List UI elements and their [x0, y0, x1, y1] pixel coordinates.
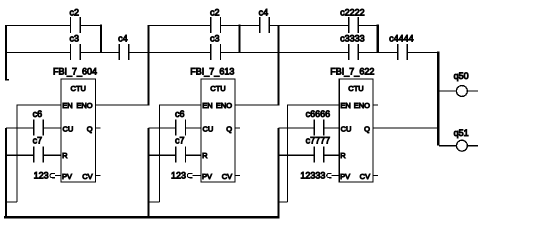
function block U1 FBI_7_604 (CTU counter) [53, 66, 97, 182]
svg-text:c6: c6 [33, 109, 43, 119]
wire: net1 rung, c3 to c4 [81, 52, 119, 54]
svg-text:Q: Q [226, 124, 232, 133]
wire: R input net3, junction to c7777 [279, 154, 314, 156]
svg-text:c3: c3 [70, 33, 80, 43]
contact c6 [33, 109, 44, 135]
svg-text:CU: CU [203, 124, 214, 133]
wire: net1 branch joiner vertical [100, 25, 102, 53]
wire: EN-branch bottom horizontal net1 [6, 201, 17, 203]
wire: CV output stub block3 [373, 175, 378, 177]
svg-text:CV: CV [82, 172, 92, 181]
wire: net3 rung, c3333 to c4444 [359, 52, 397, 54]
wire: EN-branch vertical net3 [287, 104, 289, 202]
wire: c7777 to R pin block3 [324, 154, 339, 156]
svg-text:123: 123 [34, 170, 49, 180]
wire: net2 rung, rail to c3 [149, 52, 211, 54]
wire: CV output stub block1 [95, 175, 100, 177]
contact c3333 [340, 33, 365, 60]
wire: net2 branch top, rail to c2 [149, 25, 211, 27]
wire: Q output stub block1 [95, 127, 100, 129]
svg-text:Q: Q [364, 124, 370, 133]
svg-text:CV: CV [360, 172, 370, 181]
contact c4444 [389, 33, 414, 60]
wire: net2 c4 to network3 rail [270, 25, 280, 27]
wire: net1 rung, rail to c3 [6, 52, 70, 54]
wire: c6666 to CU pin block3 [324, 127, 339, 129]
svg-text:CTU: CTU [71, 84, 86, 93]
svg-text:PV: PV [340, 172, 350, 181]
wire: CV output stub block2 [235, 175, 240, 177]
contact c6 net2 [175, 109, 186, 135]
wire: CU input net3, junction to c6666 [279, 127, 314, 129]
wire: R input net2, junction to c7 [149, 154, 176, 156]
svg-text:R: R [62, 151, 68, 160]
svg-text:c3333: c3333 [340, 33, 365, 43]
literal 123 to PV block2 [171, 170, 201, 180]
wire: Q output block3 to coil branch vertical [373, 127, 438, 129]
wire: net2 branch joiner to c4 [240, 25, 259, 27]
literal 123 to PV block1 [34, 170, 61, 180]
svg-text:c4444: c4444 [389, 33, 414, 43]
svg-text:Q: Q [87, 124, 93, 133]
svg-text:R: R [202, 151, 208, 160]
junction vertical net1 (to bottom bus) [5, 128, 7, 217]
junction vertical net3 (to bottom bus) [277, 128, 279, 217]
contact c7777 [306, 135, 331, 162]
svg-text:EN: EN [202, 101, 212, 110]
svg-text:ENO: ENO [76, 101, 92, 110]
contact c2 [70, 8, 81, 33]
svg-text:FBI_7_613: FBI_7_613 [190, 66, 234, 76]
wire: EN-branch bottom horizontal net2 [149, 201, 160, 203]
function block U3 FBI_7_622 (CTU counter) [330, 66, 374, 182]
left power rail, network 3 [277, 25, 279, 106]
contact c6666 [306, 109, 331, 135]
svg-text:FBI_7_622: FBI_7_622 [330, 66, 374, 76]
coil q51 [439, 128, 478, 151]
svg-text:c6666: c6666 [306, 109, 331, 119]
literal 12333 to PV block3 [300, 170, 339, 180]
svg-text:c4: c4 [118, 33, 128, 43]
wire: c6 to CU pin block2 [186, 127, 201, 129]
wire: EN-branch vertical net2 [159, 104, 161, 202]
wire: EN input net1 [17, 104, 61, 106]
wire: net3 c2222 to branch joiner [359, 25, 379, 27]
svg-text:PV: PV [62, 172, 72, 181]
wire: net2 branch joiner vertical [238, 25, 240, 53]
wire: net2 c2 to branch joiner [221, 25, 239, 27]
svg-text:CTU: CTU [210, 84, 225, 93]
svg-text:c2: c2 [70, 8, 80, 18]
svg-text:EN: EN [340, 101, 350, 110]
wire: Q output stub block2 [235, 127, 240, 129]
svg-text:c7: c7 [33, 135, 43, 145]
svg-text:c4: c4 [259, 8, 269, 18]
svg-text:c2222: c2222 [340, 8, 365, 18]
svg-text:c3: c3 [210, 33, 220, 43]
contact c2 net2 [210, 8, 221, 33]
svg-text:123: 123 [171, 170, 186, 180]
svg-text:CU: CU [63, 124, 74, 133]
wire: c7 to R pin block2 [186, 154, 201, 156]
bottom bus wire [4, 216, 280, 219]
contact c3 [70, 33, 81, 60]
wire: EN input net3 [288, 104, 340, 106]
svg-text:q50: q50 [454, 71, 469, 81]
svg-text:c7777: c7777 [306, 135, 331, 145]
wire: ENO block2 to network3 rail [235, 104, 280, 106]
wire: ENO block1 to network2 rail [95, 104, 149, 106]
contact c2222 [340, 8, 365, 33]
wire: net1 c2 to branch joiner [81, 25, 101, 27]
contact c4 [118, 33, 129, 60]
svg-text:FBI_7_604: FBI_7_604 [53, 66, 97, 76]
svg-text:R: R [340, 151, 346, 160]
contact c4 net2 [259, 8, 270, 33]
svg-text:q51: q51 [454, 128, 469, 138]
wire: CU input net1, junction to c6 [6, 127, 33, 129]
svg-text:c2: c2 [210, 8, 220, 18]
svg-text:EN: EN [62, 101, 72, 110]
wire: ENO output stub block3 [373, 104, 378, 106]
wire: net3 branch top, rail to c2222 [279, 25, 348, 27]
wire: net3 rung, c4444 to coil branch vertical [408, 52, 439, 54]
svg-text:CTU: CTU [348, 84, 363, 93]
wire: c7 to R pin [44, 154, 61, 156]
contact c7 net2 [175, 135, 186, 162]
svg-text:c6: c6 [175, 109, 185, 119]
wire: EN-branch vertical net1 [16, 104, 18, 202]
function block U2 FBI_7_613 (CTU counter) [190, 66, 235, 182]
wire: net1 rung, c4 to network2 rail [129, 52, 149, 54]
coil q50 [439, 71, 478, 96]
contact c7 [33, 135, 44, 162]
left power rail, network 2 [147, 25, 149, 106]
wire: net3 branch joiner vertical [376, 25, 378, 53]
junction vertical net2 (to bottom bus) [147, 128, 149, 217]
contact c3 net2 [210, 33, 221, 60]
svg-text:c7: c7 [175, 135, 185, 145]
svg-text:CU: CU [341, 124, 352, 133]
wire: coil branch vertical (rung and Q to coils) [437, 51, 439, 145]
wire: net2 rung, c3 to network3 rail [221, 52, 279, 54]
wire: EN input net2 [160, 104, 202, 106]
wire: EN-branch bottom horizontal net3 [279, 201, 288, 203]
svg-text:ENO: ENO [216, 101, 232, 110]
wire: c6 to CU pin [44, 127, 61, 129]
left power rail, network 1 [5, 25, 7, 80]
svg-text:12333: 12333 [300, 170, 325, 180]
svg-text:PV: PV [202, 172, 212, 181]
wire: net1 branch top, rail to c2 [6, 25, 70, 27]
wire: R input net1, junction to c7 [6, 154, 33, 156]
svg-text:ENO: ENO [354, 101, 370, 110]
svg-text:CV: CV [222, 172, 232, 181]
wire: net3 rung, rail to c3333 [280, 52, 348, 54]
wire: CU input net2, junction to c6 [149, 127, 176, 129]
